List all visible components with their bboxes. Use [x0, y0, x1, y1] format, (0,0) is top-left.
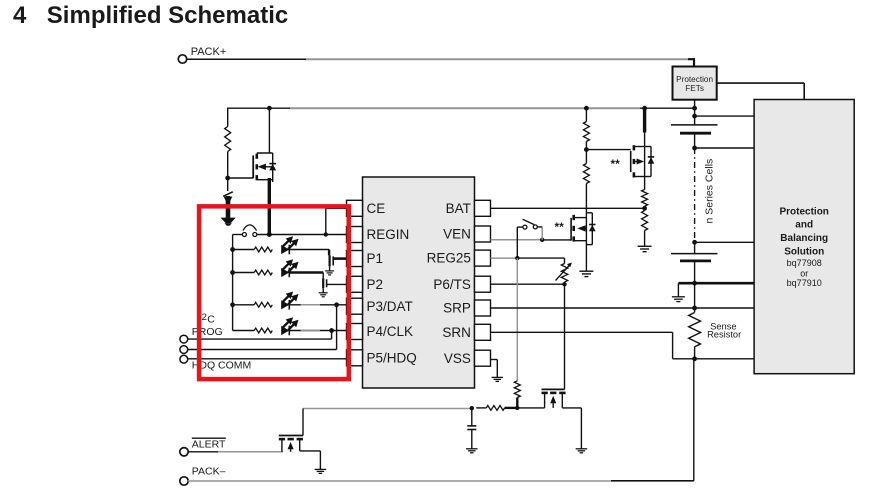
svg-text:and: and [795, 220, 813, 231]
svg-text:REGIN: REGIN [367, 227, 410, 242]
svg-text:n Series Cells: n Series Cells [703, 159, 715, 224]
svg-text:P5/HDQ: P5/HDQ [367, 350, 417, 365]
svg-text:C: C [207, 313, 215, 325]
svg-text:4: 4 [13, 2, 27, 29]
svg-text:2: 2 [202, 312, 207, 323]
svg-text:CE: CE [367, 201, 386, 216]
svg-text:ALERT: ALERT [192, 439, 226, 451]
svg-text:Balancing: Balancing [780, 233, 828, 244]
svg-text:PACK+: PACK+ [191, 46, 227, 58]
svg-text:PROG: PROG [192, 326, 223, 338]
svg-text:**: ** [555, 220, 565, 234]
svg-text:FETs: FETs [685, 84, 704, 93]
svg-text:bq77908: bq77908 [787, 258, 822, 268]
svg-text:P1: P1 [367, 251, 384, 266]
svg-text:REG25: REG25 [427, 251, 471, 266]
svg-text:PACK–: PACK– [192, 466, 226, 478]
svg-text:Protection: Protection [779, 207, 828, 218]
svg-text:P2: P2 [367, 277, 384, 292]
svg-text:Simplified Schematic: Simplified Schematic [47, 2, 288, 29]
svg-text:bq77910: bq77910 [787, 278, 822, 288]
svg-text:Resistor: Resistor [707, 329, 741, 339]
svg-text:VSS: VSS [444, 351, 471, 366]
svg-text:BAT: BAT [446, 201, 471, 216]
svg-text:P6/TS: P6/TS [433, 277, 471, 292]
svg-text:P4/CLK: P4/CLK [367, 324, 414, 339]
svg-text:or: or [800, 269, 808, 279]
svg-text:P3/DAT: P3/DAT [367, 299, 413, 314]
svg-text:**: ** [611, 157, 621, 171]
svg-text:VEN: VEN [443, 227, 471, 242]
svg-text:Solution: Solution [784, 247, 824, 258]
svg-text:SRP: SRP [443, 301, 471, 316]
svg-text:SRN: SRN [442, 325, 471, 340]
svg-text:Protection: Protection [676, 75, 713, 84]
